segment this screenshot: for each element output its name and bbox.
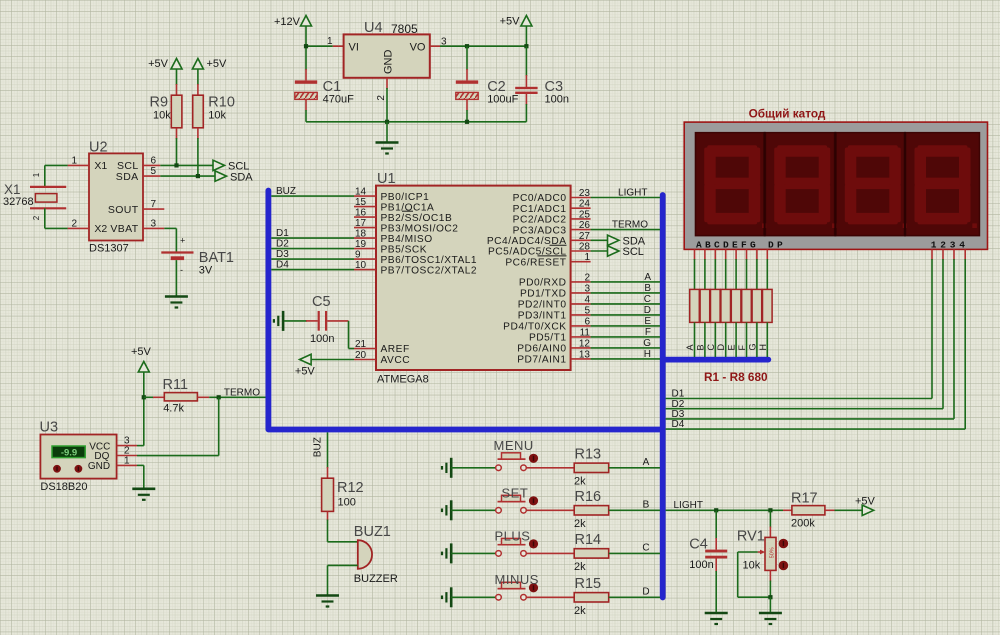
- svg-text:B: B: [644, 283, 651, 294]
- svg-text:14: 14: [355, 187, 367, 198]
- svg-text:5: 5: [584, 305, 590, 316]
- svg-text:3V: 3V: [199, 265, 213, 277]
- svg-text:PD7/AIN1: PD7/AIN1: [517, 355, 566, 366]
- svg-text:7: 7: [151, 199, 157, 210]
- svg-text:A: A: [643, 457, 650, 468]
- svg-text:GND: GND: [88, 461, 110, 472]
- svg-text:R1 - R8 680: R1 - R8 680: [704, 370, 768, 384]
- svg-text:F: F: [645, 327, 651, 338]
- svg-text:C: C: [706, 344, 716, 351]
- svg-text:PB4/MISO: PB4/MISO: [381, 234, 433, 245]
- svg-text:PD3/INT1: PD3/INT1: [518, 311, 567, 322]
- svg-text:D4: D4: [276, 260, 289, 271]
- svg-text:10: 10: [355, 260, 367, 271]
- svg-text:1: 1: [327, 36, 333, 47]
- svg-text:AVCC: AVCC: [381, 355, 411, 366]
- svg-text:17: 17: [355, 218, 367, 229]
- svg-text:R12: R12: [337, 480, 364, 496]
- svg-text:DS18B20: DS18B20: [40, 481, 87, 493]
- svg-text:PD1/TXD: PD1/TXD: [520, 289, 567, 300]
- svg-text:VBAT: VBAT: [110, 223, 138, 235]
- svg-text:11: 11: [580, 327, 591, 338]
- svg-text:D4: D4: [672, 419, 685, 430]
- svg-text:D: D: [644, 305, 651, 316]
- svg-text:SDA: SDA: [230, 172, 253, 184]
- svg-text:9: 9: [355, 250, 361, 261]
- svg-text:DS1307: DS1307: [89, 243, 129, 255]
- svg-text:F: F: [737, 345, 747, 351]
- svg-text:2k: 2k: [574, 561, 586, 573]
- svg-text:32768: 32768: [3, 196, 34, 208]
- svg-text:1: 1: [71, 155, 77, 166]
- svg-text:B: B: [643, 499, 650, 510]
- svg-text:6: 6: [151, 155, 157, 166]
- svg-text:H: H: [644, 349, 651, 360]
- svg-text:16: 16: [355, 208, 367, 219]
- svg-text:+5V: +5V: [295, 366, 316, 378]
- svg-text:D2: D2: [276, 239, 289, 250]
- svg-text:R15: R15: [575, 576, 602, 592]
- svg-text:C5: C5: [312, 294, 331, 310]
- svg-text:PB6/TOSC1/XTAL1: PB6/TOSC1/XTAL1: [381, 255, 478, 266]
- svg-text:+5V: +5V: [148, 58, 169, 70]
- svg-text:C4: C4: [689, 537, 708, 553]
- svg-text:SCL: SCL: [623, 246, 644, 258]
- svg-text:-: -: [180, 265, 183, 275]
- svg-text:1: 1: [124, 455, 130, 466]
- svg-text:50%: 50%: [770, 547, 776, 558]
- svg-text:R10: R10: [208, 95, 235, 111]
- svg-text:100n: 100n: [310, 333, 334, 345]
- svg-text:2: 2: [376, 95, 387, 101]
- svg-text:A: A: [685, 344, 695, 350]
- svg-text:15: 15: [355, 197, 367, 208]
- svg-text:PB0/ICP1: PB0/ICP1: [381, 192, 430, 203]
- svg-text:SET: SET: [502, 486, 529, 501]
- svg-text:1: 1: [584, 252, 590, 263]
- svg-text:TERMO: TERMO: [224, 388, 260, 399]
- svg-text:3: 3: [151, 218, 157, 229]
- svg-text:PB7/TOSC2/XTAL2: PB7/TOSC2/XTAL2: [381, 265, 478, 276]
- svg-text:6: 6: [584, 316, 590, 327]
- svg-text:SDA: SDA: [116, 171, 139, 183]
- svg-text:GND: GND: [383, 50, 395, 75]
- svg-text:MINUS: MINUS: [495, 572, 539, 587]
- svg-text:2k: 2k: [574, 518, 586, 530]
- svg-text:4.7k: 4.7k: [163, 403, 184, 415]
- svg-text:R17: R17: [791, 491, 818, 507]
- svg-text:PB3/MOSI/OC2: PB3/MOSI/OC2: [381, 223, 459, 234]
- svg-text:100n: 100n: [545, 94, 569, 106]
- svg-text:13: 13: [579, 349, 591, 360]
- svg-text:D3: D3: [276, 249, 289, 260]
- svg-text:LIGHT: LIGHT: [618, 188, 647, 199]
- svg-text:U3: U3: [40, 420, 59, 436]
- svg-text:100: 100: [338, 497, 356, 509]
- svg-text:+12V: +12V: [274, 16, 301, 28]
- svg-text:PB2/SS/OC1B: PB2/SS/OC1B: [381, 213, 453, 224]
- svg-text:R16: R16: [575, 489, 602, 505]
- svg-text:PC3/ADC3: PC3/ADC3: [513, 225, 567, 236]
- svg-text:PD5/T1: PD5/T1: [529, 333, 567, 344]
- svg-text:R13: R13: [575, 446, 602, 462]
- svg-text:23: 23: [579, 188, 591, 199]
- svg-text:2k: 2k: [574, 475, 586, 487]
- svg-text:SOUT: SOUT: [108, 204, 139, 216]
- svg-text:PLUS: PLUS: [495, 529, 531, 544]
- svg-text:B: B: [695, 344, 705, 350]
- svg-text:PD2/INT0: PD2/INT0: [518, 300, 567, 311]
- svg-text:27: 27: [579, 231, 591, 242]
- svg-text:C: C: [644, 294, 651, 305]
- svg-text:PC1/ADC1: PC1/ADC1: [513, 204, 567, 215]
- svg-text:PC6/RESET: PC6/RESET: [505, 257, 566, 268]
- svg-text:2: 2: [584, 272, 590, 283]
- svg-text:R14: R14: [575, 532, 602, 548]
- svg-text:AREF: AREF: [381, 344, 410, 355]
- svg-text:BUZ: BUZ: [313, 437, 324, 457]
- svg-text:TERMO: TERMO: [612, 220, 648, 231]
- svg-text:1: 1: [32, 172, 41, 177]
- svg-text:G: G: [643, 338, 651, 349]
- svg-text:X1: X1: [4, 182, 21, 197]
- svg-text:+5V: +5V: [500, 16, 521, 28]
- svg-text:LIGHT: LIGHT: [674, 500, 703, 511]
- svg-text:D: D: [642, 586, 649, 597]
- svg-text:28: 28: [579, 242, 591, 253]
- svg-text:10k: 10k: [208, 110, 226, 122]
- svg-text:4: 4: [584, 294, 590, 305]
- svg-text:ATMEGA8: ATMEGA8: [377, 374, 429, 386]
- svg-text:12: 12: [579, 338, 591, 349]
- svg-text:E: E: [727, 344, 737, 350]
- svg-text:PC0/ADC0: PC0/ADC0: [513, 193, 567, 204]
- svg-text:E: E: [644, 316, 651, 327]
- svg-text:PC2/ADC2: PC2/ADC2: [513, 215, 567, 226]
- svg-text:2: 2: [71, 218, 77, 229]
- svg-text:10k: 10k: [743, 560, 761, 572]
- svg-text:C: C: [642, 542, 649, 553]
- svg-text:ABCDEFG DP: ABCDEFG DP: [696, 240, 786, 251]
- svg-text:200k: 200k: [791, 518, 815, 530]
- svg-text:BUZ1: BUZ1: [354, 524, 391, 540]
- svg-text:+5V: +5V: [131, 346, 152, 358]
- svg-text:U4: U4: [364, 20, 383, 36]
- svg-text:2: 2: [32, 215, 41, 220]
- svg-text:Общий катод: Общий катод: [749, 107, 826, 121]
- svg-text:VO: VO: [410, 42, 426, 54]
- svg-text:U1: U1: [377, 171, 396, 187]
- svg-text:20: 20: [355, 350, 367, 361]
- svg-text:24: 24: [579, 199, 591, 210]
- svg-text:VI: VI: [349, 42, 359, 54]
- svg-text:MENU: MENU: [494, 438, 534, 453]
- svg-text:D1: D1: [276, 228, 289, 239]
- svg-text:PD6/AIN0: PD6/AIN0: [517, 344, 566, 355]
- svg-text:PD0/RXD: PD0/RXD: [519, 278, 567, 289]
- svg-text:100uF: 100uF: [487, 94, 518, 106]
- svg-text:X1: X1: [94, 160, 107, 172]
- svg-text:25: 25: [579, 209, 591, 220]
- svg-text:100n: 100n: [689, 559, 713, 571]
- svg-text:D: D: [716, 344, 726, 351]
- svg-text:7805: 7805: [391, 22, 418, 36]
- svg-text:2k: 2k: [574, 605, 586, 617]
- svg-text:H: H: [758, 344, 768, 351]
- svg-text:R11: R11: [163, 377, 189, 393]
- svg-text:21: 21: [355, 339, 367, 350]
- svg-text:26: 26: [579, 220, 591, 231]
- svg-text:10k: 10k: [153, 110, 171, 122]
- svg-text:+: +: [180, 236, 185, 246]
- svg-text:19: 19: [355, 239, 367, 250]
- svg-text:A: A: [644, 272, 651, 283]
- svg-text:5: 5: [151, 166, 157, 177]
- svg-text:PB5/SCK: PB5/SCK: [381, 244, 428, 255]
- svg-text:R9: R9: [150, 95, 169, 111]
- svg-text:18: 18: [355, 229, 367, 240]
- svg-text:BUZZER: BUZZER: [354, 573, 398, 585]
- svg-text:+5V: +5V: [855, 496, 876, 508]
- svg-text:BUZ: BUZ: [276, 186, 296, 197]
- svg-text:RV1: RV1: [737, 529, 765, 545]
- svg-text:1234: 1234: [931, 240, 969, 251]
- svg-text:3: 3: [584, 283, 590, 294]
- svg-text:PD4/T0/XCK: PD4/T0/XCK: [503, 322, 566, 333]
- svg-text:-9.9: -9.9: [61, 448, 77, 459]
- svg-text:+5V: +5V: [207, 58, 228, 70]
- svg-text:470uF: 470uF: [323, 94, 354, 106]
- svg-text:G: G: [747, 343, 757, 350]
- svg-text:X2: X2: [94, 223, 107, 235]
- svg-text:U2: U2: [89, 140, 108, 156]
